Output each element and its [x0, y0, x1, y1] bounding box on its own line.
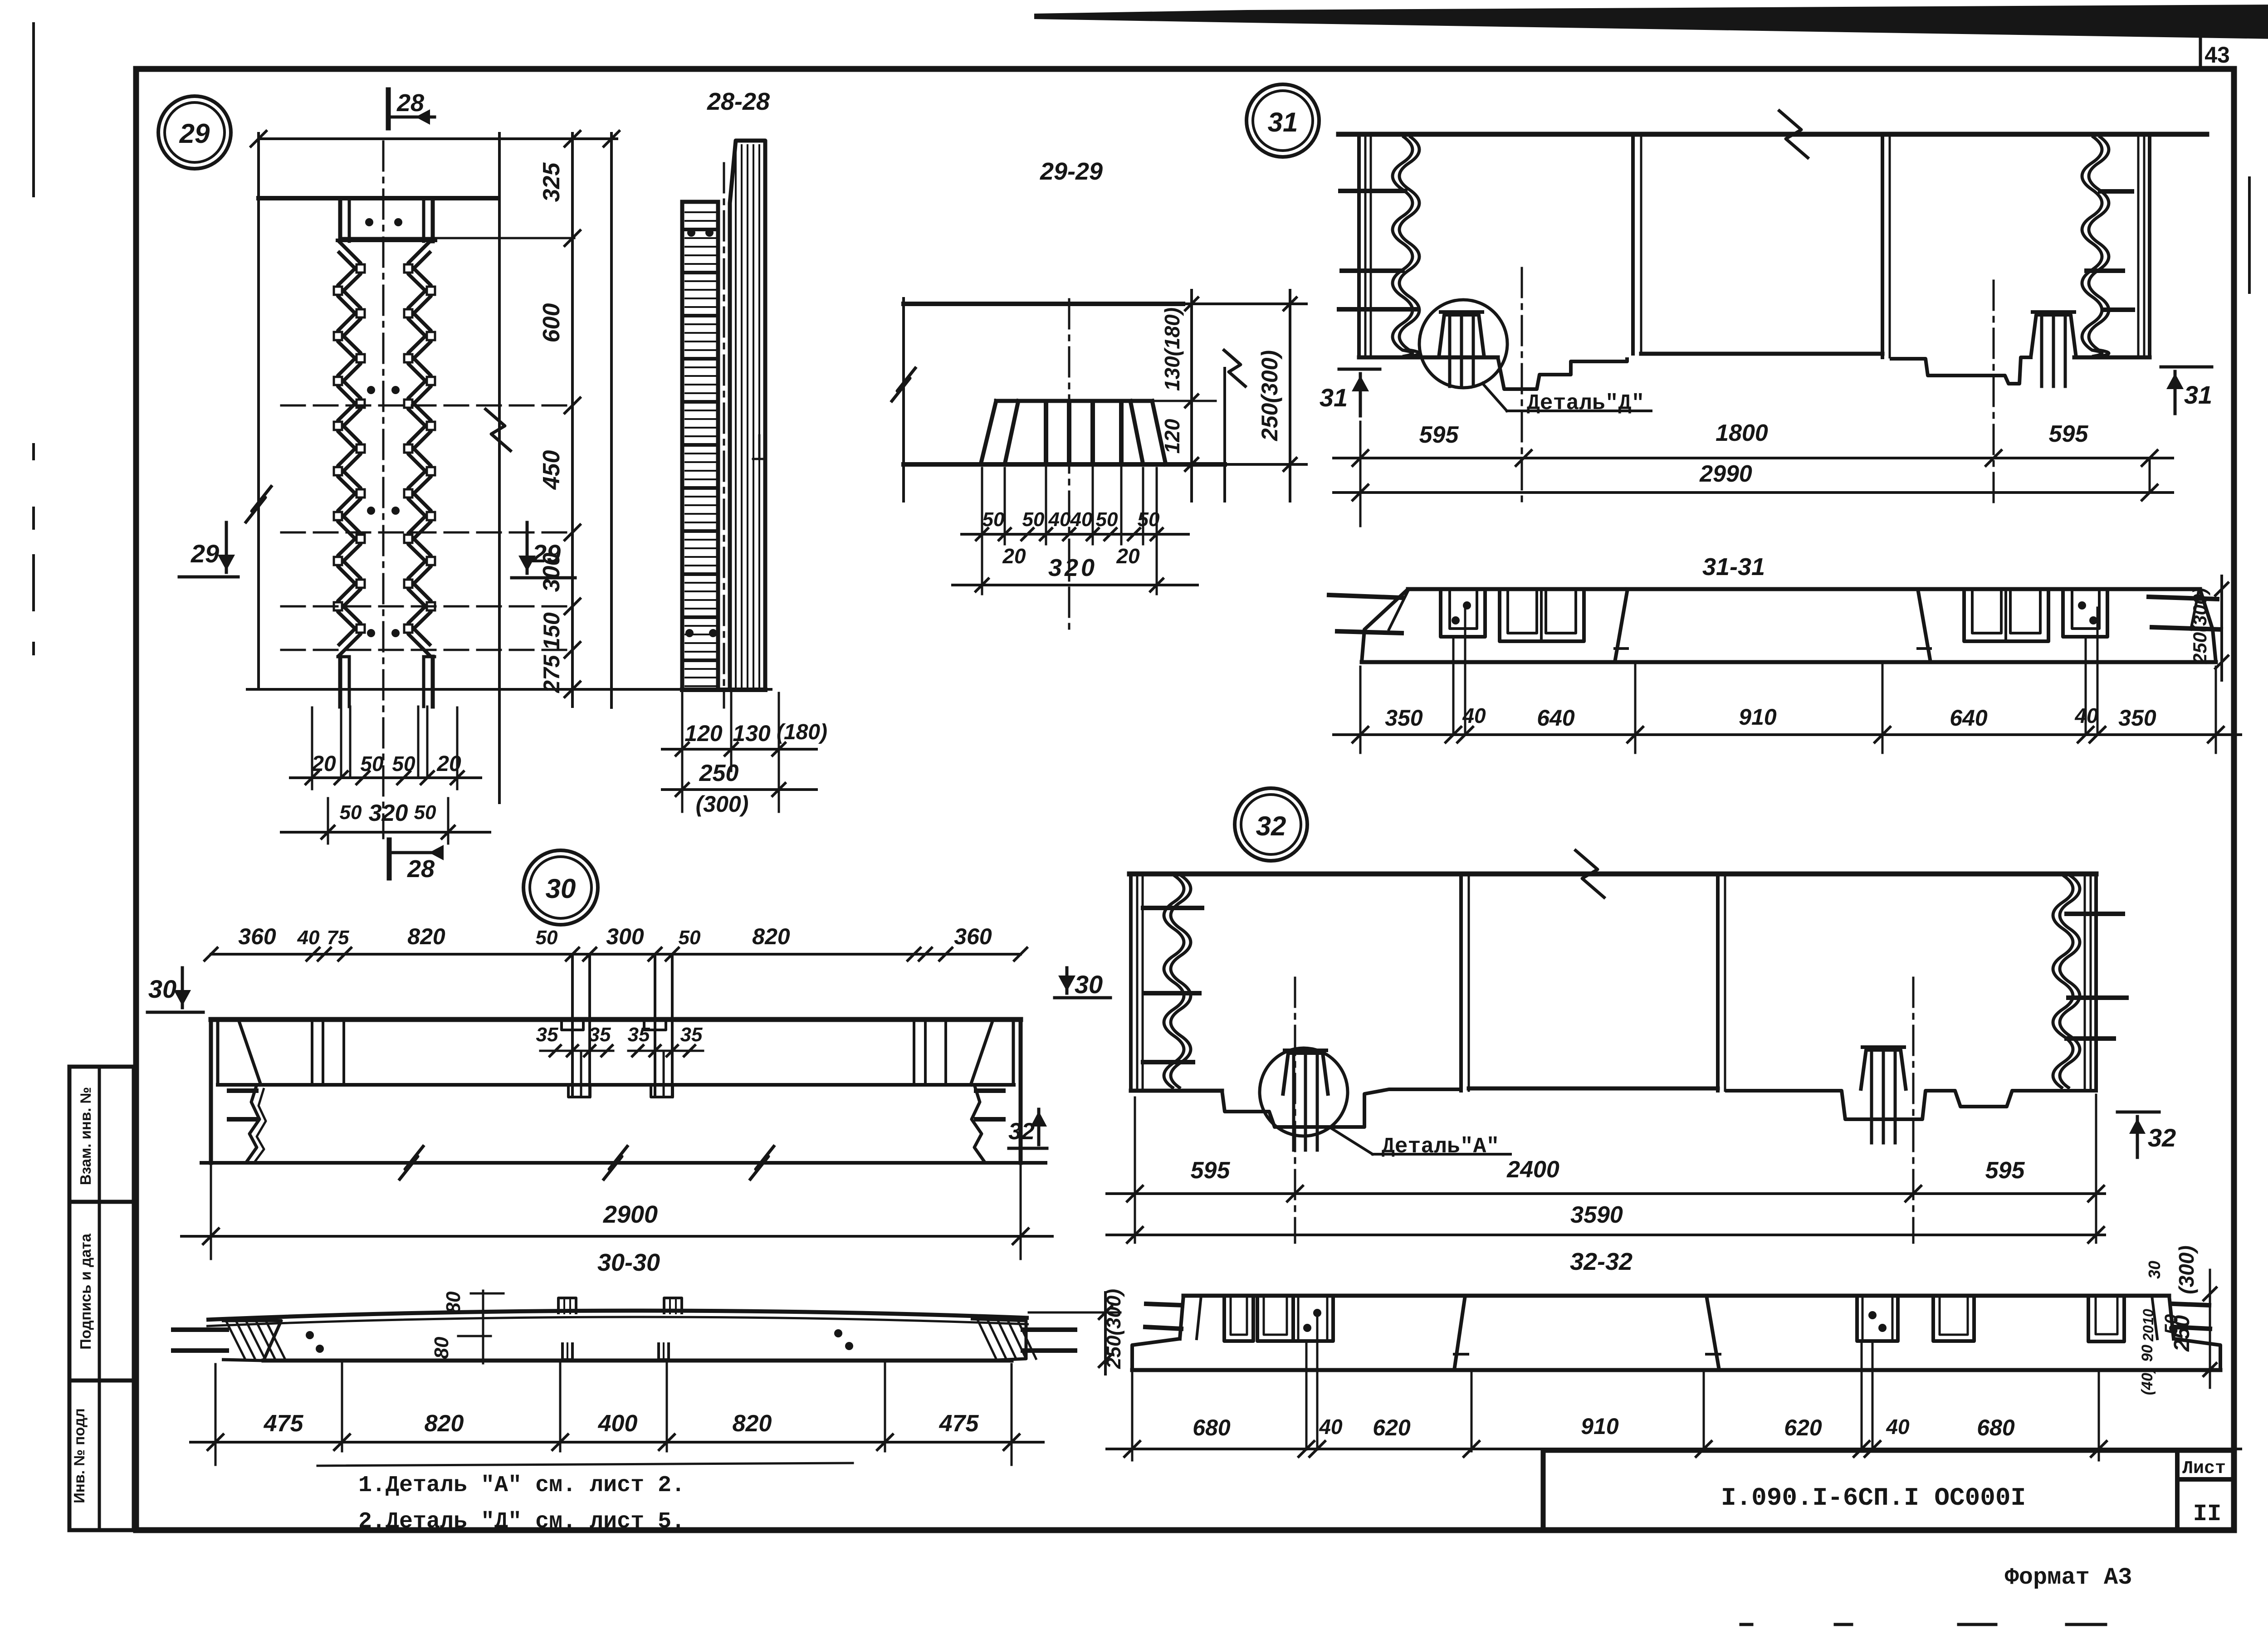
svg-text:29: 29 — [532, 539, 561, 568]
svg-text:Лист: Лист — [2182, 1458, 2226, 1479]
31-31: axis drop lines left — [1452, 639, 1455, 735]
svg-text:640: 640 — [1950, 705, 1988, 731]
view 30: slot under flange B — [651, 1085, 673, 1097]
view 29: lower dim line 2 (320) — [281, 831, 490, 834]
30-30: left hatched end cap — [222, 1321, 281, 1361]
svg-text:50: 50 — [1138, 508, 1160, 531]
31-31: right vertical dim 250(300) — [2220, 576, 2223, 680]
svg-text:31: 31 — [1268, 107, 1298, 137]
svg-text:35: 35 — [680, 1024, 703, 1046]
svg-text:360: 360 — [238, 924, 276, 949]
view 30: small dims 35x4 — [540, 1050, 613, 1052]
svg-text:29-29: 29-29 — [1040, 158, 1103, 185]
31-31: bolt dots right — [2078, 601, 2086, 610]
32-32: left rebar stubs — [1146, 1304, 1182, 1305]
view 31: left panel bottom edge — [1359, 356, 1498, 360]
28-28: dim line 250 — [662, 788, 816, 791]
view 32: middle panel bottom edge — [1469, 1087, 1718, 1091]
svg-text:250: 250 — [2170, 1315, 2194, 1352]
svg-text:50: 50 — [340, 801, 362, 824]
svg-text:620: 620 — [1784, 1415, 1822, 1440]
svg-text:(300): (300) — [696, 791, 749, 817]
svg-text:50: 50 — [1022, 508, 1045, 531]
svg-text:50: 50 — [1096, 508, 1118, 531]
30-30: 80 dims — [482, 1291, 484, 1363]
svg-text:29: 29 — [179, 118, 210, 149]
view 30: right end cap — [1019, 1019, 1023, 1163]
view 29: lower dim extension lines — [311, 707, 313, 789]
svg-text:595: 595 — [1191, 1157, 1231, 1184]
view 32: left end edge lines — [1129, 874, 1133, 1091]
32-32: left end cap — [1180, 1296, 1183, 1339]
29-29: dim line 50/50/40/40/50/50 — [962, 533, 1188, 536]
30-30: bottom dim line — [191, 1441, 1043, 1444]
svg-text:2.Деталь "Д" см. лист 5.: 2.Деталь "Д" см. лист 5. — [358, 1509, 685, 1535]
scan artifact: left page edge marks — [32, 24, 35, 196]
30-30: top surface arc — [206, 1311, 1029, 1320]
view 31: right rebar stubs — [2100, 189, 2132, 194]
30-30: right rebar stubs — [1023, 1327, 1075, 1332]
32-32: dim extension verticals — [1131, 1373, 1134, 1460]
svg-text:910: 910 — [1581, 1414, 1619, 1439]
svg-text:320: 320 — [1048, 554, 1097, 581]
svg-text:28-28: 28-28 — [707, 88, 770, 115]
32-32: top line — [1183, 1294, 2169, 1298]
svg-text:30: 30 — [2145, 1261, 2164, 1279]
svg-text:600: 600 — [538, 303, 565, 343]
svg-text:Формат А3: Формат А3 — [2005, 1564, 2132, 1591]
svg-text:250(300): 250(300) — [1103, 1289, 1125, 1369]
view 31: dim line 2990 — [1334, 491, 2173, 494]
32-32: right end cap — [2169, 1296, 2174, 1339]
view 32: right keyed (wavy) edge — [2053, 875, 2073, 1088]
svg-text:50: 50 — [360, 752, 384, 776]
view 30: left end cap — [209, 1019, 213, 1163]
svg-text:32: 32 — [2148, 1123, 2176, 1152]
svg-text:20: 20 — [311, 752, 336, 776]
svg-text:325: 325 — [538, 162, 565, 202]
view 31: right keyed (wavy) edge — [2082, 136, 2102, 356]
31-31: right open boxes — [1964, 589, 2048, 641]
29-29: far right dim line 250(300) — [1289, 290, 1291, 501]
svg-text:275: 275 — [539, 654, 564, 693]
svg-text:30-30: 30-30 — [597, 1249, 660, 1276]
svg-text:31: 31 — [2184, 380, 2212, 409]
32-32: right rebar stubs — [2174, 1304, 2209, 1305]
view 31: centre joint lines — [1631, 134, 1635, 354]
svg-text:820: 820 — [752, 924, 790, 949]
svg-text:595: 595 — [2049, 421, 2089, 447]
svg-text:475: 475 — [264, 1410, 304, 1437]
31-31: right channel cup — [2063, 589, 2107, 637]
28-28: right leaf outline — [730, 141, 765, 690]
view 29: centre axis line — [382, 141, 385, 838]
svg-text:31: 31 — [1320, 383, 1348, 412]
31-31: left end cap — [1362, 589, 1408, 662]
svg-text:30: 30 — [148, 975, 176, 1003]
30-30: right hatched end cap — [971, 1319, 1026, 1361]
section mark 29 left — [179, 576, 238, 579]
32-32: bottom dim line — [1107, 1448, 2241, 1450]
31-31: right rebar stubs — [2149, 597, 2217, 599]
view 29: dimension ticks right — [565, 230, 580, 246]
view 31: left end edge lines — [1357, 134, 1361, 357]
view 32: axis right — [1912, 978, 1915, 1243]
svg-text:32: 32 — [1256, 811, 1286, 841]
svg-text:40: 40 — [297, 927, 320, 949]
svg-text:50: 50 — [679, 927, 701, 949]
view 30: side extension lines to dims — [210, 1163, 212, 1259]
31-31: left open boxes — [1500, 589, 1584, 641]
view 31: dim line 595/1800/595 — [1334, 457, 2173, 459]
30-30: bottom line — [264, 1359, 1012, 1363]
svg-text:Инв. № подл: Инв. № подл — [71, 1408, 88, 1503]
svg-text:595: 595 — [1985, 1157, 2025, 1184]
view 31: middle panel bottom edge — [1641, 352, 1882, 356]
view 29: level tie lines (dashed) — [281, 405, 572, 407]
31-31: right slant divider — [1918, 589, 1931, 662]
view 30: left jagged break edge — [246, 1085, 259, 1163]
view 29: panel head outline — [338, 198, 342, 241]
30-30: dim extension lines — [215, 1364, 217, 1465]
svg-text:820: 820 — [425, 1410, 464, 1437]
view 29: top dimension line — [259, 137, 617, 140]
section mark 29 right — [512, 576, 575, 580]
31-31: dim extension verticals — [1359, 667, 1362, 753]
view 31: top edge — [1339, 132, 2207, 137]
title block Лист cell — [2175, 1450, 2180, 1530]
section mark 31 left — [1339, 368, 1380, 371]
view 29: bolt dots mid/lower — [367, 386, 375, 394]
svg-text:75: 75 — [327, 927, 349, 949]
svg-text:(300): (300) — [2175, 1245, 2198, 1294]
svg-text:1800: 1800 — [1716, 420, 1768, 446]
view 32: right joint lines — [1716, 874, 1720, 1091]
view 31: left rebar stubs — [1340, 189, 1405, 193]
view 31: break on top edge — [1778, 110, 1809, 159]
view 31: bottom edge right segment — [2074, 356, 2150, 360]
31-31: left rebar stubs — [1329, 595, 1402, 598]
section cut mark 28 (bottom) — [387, 840, 392, 878]
view marker circle 32 — [1235, 788, 1307, 861]
svg-text:50: 50 — [392, 752, 415, 776]
view 31: anchor dowel right — [2031, 315, 2076, 357]
svg-text:680: 680 — [1977, 1415, 2015, 1440]
28-28: bolt dots — [687, 229, 695, 237]
svg-text:250(300): 250(300) — [1257, 350, 1282, 441]
view 29: right extension lines — [498, 133, 501, 803]
svg-text:680: 680 — [1193, 1415, 1231, 1440]
svg-text:40: 40 — [1319, 1415, 1343, 1439]
view 30: left rebar stubs — [229, 1088, 256, 1093]
svg-text:40: 40 — [2074, 704, 2098, 727]
svg-text:(180): (180) — [777, 720, 827, 744]
scan artifact: dark band along top edge — [1034, 5, 2268, 39]
stamp column boxes (left margin) — [69, 1067, 134, 1530]
view 31: right end edge lines — [2137, 134, 2140, 357]
31-31: left slant divider — [1615, 589, 1628, 662]
svg-text:360: 360 — [954, 924, 992, 949]
sheet number 43 box divider — [2199, 27, 2202, 69]
31-31: bolt dots left — [1463, 601, 1471, 610]
svg-text:Подпись и дата: Подпись и дата — [77, 1234, 94, 1350]
view 29: left extension line — [257, 133, 260, 689]
30-30: faint ghost line under dims — [318, 1463, 853, 1466]
view 29: bottom tails — [338, 657, 342, 707]
view 29: break mark on left extension — [245, 485, 272, 523]
svg-text:120: 120 — [684, 721, 723, 746]
section cut mark 28 (top) — [386, 90, 391, 128]
view 31: axis left — [1521, 268, 1523, 506]
svg-text:40: 40 — [1048, 508, 1071, 531]
svg-text:35: 35 — [628, 1024, 650, 1046]
break mark inside panel right — [484, 408, 512, 452]
32-32: right vertical dim line — [2209, 1270, 2211, 1388]
29-29: groove bars in tongue — [1044, 404, 1048, 462]
29-29: dim line 320 — [953, 584, 1198, 586]
29-29: lower extension lines — [981, 468, 983, 594]
32-32: left slant divider — [1454, 1296, 1465, 1370]
29-29: centre axis — [1068, 299, 1070, 633]
view 30: slot under top line B — [644, 1019, 666, 1030]
view 32: top edge — [1129, 872, 2096, 877]
svg-text:80: 80 — [430, 1336, 453, 1359]
section mark 32 right — [2117, 1111, 2159, 1114]
svg-text:Деталь"Д": Деталь"Д" — [1527, 391, 1644, 416]
view 29: panel top edge — [259, 196, 497, 200]
svg-text:150: 150 — [539, 612, 564, 650]
svg-text:350: 350 — [1385, 705, 1423, 731]
view 32: dim line 595/2400/595 — [1107, 1192, 2105, 1195]
svg-text:30: 30 — [546, 873, 576, 904]
view 29: left toothed edge — [338, 240, 361, 646]
32-32: bolt dots right — [1868, 1311, 1877, 1319]
32-32: bottom line — [1132, 1368, 2220, 1372]
svg-text:2400: 2400 — [1506, 1156, 1559, 1183]
31-31: left channel cup — [1441, 589, 1485, 637]
svg-text:50: 50 — [536, 927, 558, 949]
view 29: lower dim line 1 — [290, 776, 481, 779]
view 32: bottom step profile right — [1725, 1091, 2096, 1119]
view 29: bottom base line — [247, 688, 771, 691]
svg-text:Деталь"А": Деталь"А" — [1382, 1135, 1499, 1159]
29-29: break squiggle right — [1223, 349, 1246, 387]
28-28: base line — [682, 688, 765, 692]
svg-text:30: 30 — [1075, 970, 1103, 999]
svg-text:40: 40 — [1070, 508, 1093, 531]
svg-text:450: 450 — [538, 450, 565, 490]
svg-text:300: 300 — [606, 924, 644, 949]
svg-text:31-31: 31-31 — [1702, 553, 1765, 580]
svg-text:(40): (40) — [2139, 1368, 2156, 1395]
svg-text:3590: 3590 — [1570, 1202, 1623, 1228]
leader line to Деталь А label — [1330, 1127, 1373, 1154]
svg-text:1.Деталь "А" см. лист 2.: 1.Деталь "А" см. лист 2. — [358, 1473, 685, 1498]
view 32: right rebar stubs — [2067, 912, 2123, 916]
svg-text:20: 20 — [436, 752, 461, 776]
32-32: bolt dots left — [1303, 1324, 1311, 1332]
view 30: right rebar stubs — [976, 1088, 1003, 1093]
view 29: level tick line 325 — [340, 237, 574, 239]
view 30: right jagged break edge — [972, 1085, 985, 1163]
svg-text:820: 820 — [733, 1410, 772, 1437]
29-29: bottom surface line — [904, 462, 1225, 467]
31-31: bottom dim line — [1334, 733, 2241, 736]
view 30: dim line 2900 — [181, 1235, 1052, 1238]
svg-text:32: 32 — [1008, 1118, 1035, 1145]
32-32: axis drop lines right — [1872, 1341, 1874, 1449]
section mark 30 left — [147, 1011, 203, 1014]
32-32: axis drop lines left — [1305, 1341, 1308, 1449]
31-31: axis drop lines right — [2085, 639, 2087, 735]
svg-text:20: 20 — [1002, 544, 1026, 568]
svg-text:II: II — [2193, 1501, 2221, 1527]
view 32: anchor dowel right — [1861, 1050, 1906, 1091]
view 32: break on top edge — [1574, 849, 1605, 898]
30-30: left rebar stubs — [173, 1327, 227, 1332]
view 30: vertical rib lines group1 — [311, 1019, 313, 1085]
svg-text:20: 20 — [2140, 1325, 2156, 1342]
29-29: top surface line — [904, 302, 1183, 306]
svg-text:20: 20 — [1116, 544, 1140, 568]
view 32: dim line 3590 — [1107, 1234, 2105, 1236]
svg-text:35: 35 — [589, 1024, 611, 1046]
svg-text:I.090.I-6СП.I ОС000I: I.090.I-6СП.I ОС000I — [1721, 1483, 2026, 1512]
32-32: left open boxes — [1224, 1296, 1253, 1341]
view 29: right toothed edge — [408, 240, 431, 646]
32-32: right slant divider — [1706, 1296, 1719, 1370]
view 30: rib pair B — [654, 954, 656, 1097]
view 30: top dimension line — [211, 953, 1021, 956]
view marker circle 30 — [523, 850, 598, 925]
svg-text:595: 595 — [1419, 422, 1459, 448]
view 31: axis right — [1993, 281, 1995, 506]
svg-text:320: 320 — [369, 800, 408, 826]
scan artifact: bottom-right specks — [1741, 1623, 1752, 1626]
view 32: left rebar stubs — [1143, 906, 1202, 910]
svg-text:90: 90 — [2139, 1345, 2156, 1362]
svg-text:2900: 2900 — [603, 1201, 658, 1228]
view 32: left panel bottom edge — [1131, 1089, 1222, 1093]
view marker circle 29 — [158, 96, 231, 169]
30-30: bolt dots left — [306, 1331, 314, 1339]
28-28: rib break notch — [753, 458, 765, 460]
svg-text:35: 35 — [536, 1024, 558, 1046]
28-28: right leaf vertical ribs — [735, 145, 737, 687]
30-30: right vertical dim 250(300) — [1104, 1293, 1107, 1374]
svg-text:2990: 2990 — [1699, 461, 1752, 487]
view 32: bottom step profile left — [1222, 1089, 1461, 1127]
svg-text:130(180): 130(180) — [1160, 307, 1184, 391]
svg-text:50: 50 — [414, 801, 436, 824]
view 30: bottom edge line with breaks — [201, 1161, 1046, 1165]
svg-text:10: 10 — [2140, 1309, 2156, 1325]
31-31: bottom line — [1362, 660, 2216, 664]
view marker circle 31 — [1246, 84, 1319, 157]
28-28: dim extension lines — [681, 693, 684, 771]
31-31: top line — [1408, 587, 2200, 591]
view 30: inner flange line — [218, 1083, 1014, 1087]
28-28: axis between leaves — [723, 163, 725, 707]
svg-text:32-32: 32-32 — [1570, 1248, 1633, 1275]
svg-text:620: 620 — [1373, 1415, 1411, 1440]
28-28: dim line 120/130/(180) — [662, 748, 816, 751]
svg-text:40: 40 — [1462, 704, 1486, 727]
29-29: tongue outline (trapezoid) — [996, 399, 1152, 403]
svg-text:130: 130 — [733, 721, 771, 746]
view 30: panel top edge — [211, 1017, 1021, 1022]
svg-text:29: 29 — [191, 539, 219, 568]
svg-text:120: 120 — [1160, 419, 1184, 454]
section mark 32 pointing up (left) — [1009, 1147, 1047, 1150]
view 32: axis left — [1294, 978, 1296, 1243]
svg-text:820: 820 — [407, 924, 445, 949]
view 32: left keyed (wavy) edge — [1164, 875, 1184, 1088]
view 30: vertical rib lines group4 — [913, 1019, 915, 1085]
32-32: right channel cup — [2088, 1296, 2124, 1341]
detail circle Д — [1419, 300, 1507, 388]
svg-text:40: 40 — [1886, 1415, 1910, 1439]
30-30: bolt dots right — [834, 1329, 842, 1337]
svg-text:350: 350 — [2118, 705, 2156, 731]
svg-text:28: 28 — [407, 855, 435, 883]
view 32: centre joint lines — [1459, 874, 1463, 1091]
view 32: right end edge lines — [2084, 874, 2086, 1091]
30-30: top dowel stubs — [558, 1298, 576, 1314]
view 31: right joint lines — [1881, 134, 1884, 357]
view 31: left keyed (wavy) edge — [1393, 136, 1413, 356]
detail circle А — [1260, 1048, 1348, 1136]
svg-text:80: 80 — [442, 1291, 464, 1313]
section mark 30 right — [1055, 996, 1110, 1000]
view 30: slot under top line A — [562, 1019, 583, 1030]
svg-text:250(300): 250(300) — [2189, 588, 2210, 664]
svg-text:Взам. инв. №: Взам. инв. № — [77, 1087, 94, 1185]
31-31: right end cap — [2200, 589, 2216, 662]
30-30: slot stubs below — [562, 1342, 572, 1360]
view 29: bolt dots top — [365, 218, 373, 226]
view 31: bottom step profile left — [1498, 357, 1627, 389]
32-32: right open boxes — [1857, 1296, 1898, 1341]
svg-text:475: 475 — [939, 1410, 979, 1437]
29-29: right dim line 130/120 — [1190, 290, 1193, 501]
29-29: left extension line with break — [902, 298, 905, 501]
svg-text:910: 910 — [1739, 704, 1777, 730]
leader line to Деталь Д label — [1482, 383, 1507, 411]
view 31: bottom step profile right — [1890, 357, 2033, 384]
view 30: rib pair A — [571, 954, 574, 1097]
svg-text:28: 28 — [396, 89, 424, 117]
section mark 31 right — [2161, 366, 2212, 369]
28-28: horizontal hatching of left leaf — [685, 211, 716, 213]
view 30: slot under flange A — [568, 1085, 590, 1097]
svg-text:250: 250 — [699, 760, 739, 786]
svg-text:400: 400 — [598, 1410, 638, 1437]
svg-text:43: 43 — [2204, 42, 2230, 68]
28-28: left leaf outline — [682, 202, 718, 690]
view 32: anchor dowel left (in detail circle) — [1283, 1053, 1328, 1096]
svg-text:50: 50 — [982, 508, 1005, 531]
title block outline — [1543, 1448, 2232, 1453]
svg-text:640: 640 — [1537, 705, 1575, 731]
scan artifact: right page edge mark — [2248, 178, 2251, 293]
view 31: anchor dowel left — [1439, 315, 1484, 357]
